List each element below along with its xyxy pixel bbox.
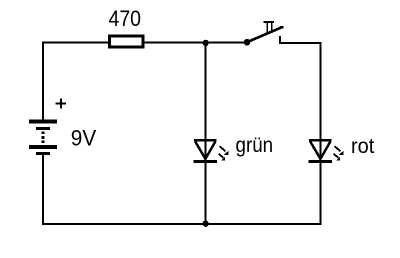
switch S1 pole dot [244,39,251,46]
LED D2 red: triangle left side [310,141,320,159]
LED D2 red: cathode bar [309,160,332,163]
battery BT1 9V [29,119,57,155]
LED D1 green: cathode bar [194,160,217,163]
wire left vertical lower (battery - to bottom-left corner) [42,154,44,225]
wire middle vertical (green LED branch) [205,43,207,225]
wire left vertical upper (battery + to top-left corner) [42,42,44,121]
LED D2 red: emission arrow 1 [335,146,344,155]
switch S1 fixed contact [279,36,281,44]
LED D2 red: anode bar [309,139,331,142]
node B junction dot (bottom return) [203,221,209,227]
LED D1 green: emission arrow 2 [219,154,226,161]
LED D2 red: emission arrow 2 [334,154,341,161]
battery plus polarity mark [56,98,66,108]
svg-text:9V: 9V [71,126,97,151]
LED D2 red: triangle right side [320,141,330,159]
svg-text:470: 470 [109,6,142,31]
wire bottom horizontal return [42,223,322,225]
LED D1 green: anode bar [194,139,216,142]
switch S1 lever [247,26,284,43]
wire top horizontal to resistor left lead [42,42,110,44]
svg-text:grün: grün [236,134,274,157]
wire resistor right lead to switch pole (through node A) [143,42,247,44]
switch S1 push-button actuator [263,22,274,34]
LED D1 green: emission arrow 1 [220,146,229,155]
node A junction dot (top, resistor/green LED/switch) [203,40,209,46]
wire right vertical (red LED branch) [320,42,322,225]
svg-text:rot: rot [351,135,374,158]
LED D1 green: triangle left side [195,141,205,159]
resistor R1 body [110,36,143,47]
LED D1 green: triangle right side [205,141,215,159]
wire switch contact to top-right corner [279,42,322,44]
